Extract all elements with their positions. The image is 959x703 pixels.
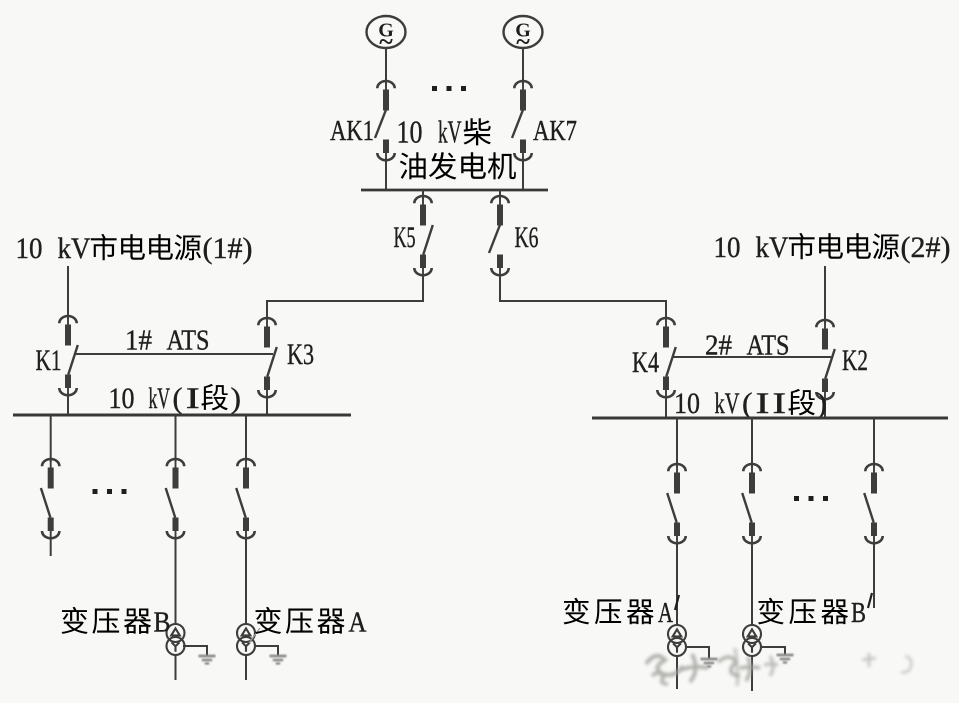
dots between right feeders: [794, 496, 828, 501]
svg-text:2#: 2#: [705, 330, 732, 362]
wire K6 down-right to K4: [499, 274, 501, 301]
wire bus II to transformer B' breaker: [751, 418, 753, 467]
svg-text:kV: kV: [58, 232, 91, 265]
svg-text:(: (: [742, 387, 753, 420]
wire breaker to transformer B': [751, 542, 753, 626]
dots between generators: [432, 86, 466, 91]
label 10 kV diesel generator line 2: [400, 152, 516, 179]
transformer B' secondary stub: [751, 656, 753, 691]
wire K5 down-left to K3: [422, 274, 424, 301]
svg-text:10: 10: [714, 231, 741, 264]
breaker K3: [258, 318, 277, 398]
dots between left feeders: [93, 489, 127, 494]
svg-text:1#: 1#: [125, 325, 152, 357]
wire AK1 to generator bus: [385, 158, 387, 190]
leader line to transformer A: [249, 628, 260, 643]
transformer A': [668, 625, 686, 656]
svg-text:AK1: AK1: [330, 115, 374, 147]
svg-text:K1: K1: [36, 344, 62, 377]
label transformer B': [758, 593, 872, 629]
svg-text:K4: K4: [632, 346, 659, 379]
svg-text:K3: K3: [287, 338, 314, 371]
breaker AK1: [375, 81, 395, 161]
stub feeder breaker (left): [41, 459, 60, 539]
earth at transformer B: [199, 656, 216, 664]
ATS1 tie line: [74, 353, 273, 355]
wire bus to K6: [499, 190, 501, 199]
transformer B neutral wire to earth: [183, 645, 207, 647]
svg-text:A: A: [658, 598, 674, 629]
transformer A secondary stub: [245, 655, 247, 680]
breaker AK7: [512, 81, 532, 161]
svg-text:kV: kV: [438, 114, 462, 150]
svg-text:10: 10: [16, 232, 43, 265]
svg-text:kV: kV: [756, 231, 789, 264]
wire breaker to transformer B: [175, 537, 177, 625]
wire bus I to stub feeder breaker: [50, 415, 52, 462]
label 1# ATS: [125, 325, 210, 357]
generator G1: [367, 16, 406, 56]
svg-text:): ): [231, 382, 242, 415]
wire bus II to stub feeder breaker (right): [873, 418, 875, 467]
svg-text:(1#): (1#): [203, 232, 253, 265]
svg-text:ATS: ATS: [167, 325, 210, 357]
transformer A feeder breaker: [236, 459, 255, 539]
wire bus I to transformer A breaker: [245, 415, 247, 462]
wire source1 to K1: [67, 266, 69, 319]
svg-text:): ): [817, 387, 828, 420]
transformer A' secondary stub: [676, 656, 678, 689]
ATS2 tie line: [672, 356, 831, 358]
svg-text:K6: K6: [515, 221, 539, 254]
transformer B: [167, 624, 185, 655]
label transformer B: [62, 607, 171, 639]
wire breaker to transformer A: [245, 537, 247, 625]
svg-text:K2: K2: [842, 344, 868, 377]
busbar 10kV segment I: [13, 414, 351, 417]
breaker K6: [489, 196, 509, 276]
earth at transformer B': [777, 655, 794, 663]
watermark smudge: [646, 648, 911, 686]
svg-text:(: (: [173, 382, 183, 415]
transformer A neutral wire to earth: [254, 645, 278, 647]
svg-text:AK7: AK7: [533, 115, 577, 147]
label 10 kV diesel generator line 1: [397, 114, 491, 150]
label transformer A: [255, 607, 367, 639]
svg-text:K5: K5: [394, 221, 416, 254]
stub feeder end (right): [873, 542, 875, 608]
label 10 kV utility source (2#): [714, 231, 951, 264]
svg-text:A: A: [349, 607, 367, 639]
svg-text:B: B: [851, 598, 866, 629]
wire AK7 to generator bus: [522, 158, 524, 190]
transformer A: [237, 624, 255, 655]
transformer B' feeder breaker: [742, 464, 761, 544]
wire K2 to bus II: [824, 398, 826, 419]
transformer B' neutral wire to earth: [760, 646, 785, 648]
generator busbar: [361, 189, 548, 192]
breaker K2: [816, 320, 835, 400]
label transformer A': [563, 595, 679, 629]
wire bus II to transformer A' breaker: [676, 418, 678, 467]
svg-text:I: I: [773, 387, 787, 420]
busbar 10kV segment II: [592, 417, 948, 420]
wire bus to K5: [422, 190, 424, 199]
transformer A' feeder breaker: [667, 464, 686, 544]
transformer B feeder breaker: [166, 459, 185, 539]
svg-text:10: 10: [397, 114, 423, 150]
wire K1 to bus I: [67, 393, 69, 416]
transformer A' neutral wire to earth: [685, 646, 709, 648]
stub feeder breaker (right): [864, 464, 883, 544]
transformer B': [743, 625, 761, 656]
label 10 kV utility source (1#): [16, 232, 253, 265]
breaker K4: [657, 318, 676, 398]
wire source2 to K2: [824, 266, 826, 323]
svg-text:I: I: [186, 382, 200, 415]
svg-text:10: 10: [674, 387, 700, 420]
svg-text:(2#): (2#): [901, 231, 951, 264]
transformer B secondary stub: [175, 655, 177, 680]
svg-text:kV: kV: [149, 382, 171, 415]
svg-text:10: 10: [109, 382, 135, 415]
svg-text:I: I: [756, 387, 770, 420]
breaker K1: [59, 316, 78, 396]
svg-text:kV: kV: [715, 387, 740, 420]
generator G2: [504, 16, 543, 56]
wire K3 to bus I: [266, 395, 268, 416]
wire G1 to AK1: [385, 48, 387, 84]
wire G2 to AK7: [522, 48, 524, 84]
wire breaker to transformer A': [676, 542, 678, 626]
svg-text:ATS: ATS: [747, 330, 790, 362]
label 2# ATS: [705, 330, 790, 362]
wire bus I to transformer B breaker: [175, 415, 177, 462]
earth at transformer A: [270, 656, 287, 664]
svg-text:B: B: [154, 607, 171, 639]
stub feeder end: [50, 537, 52, 556]
earth at transformer A': [701, 659, 718, 667]
breaker K5: [414, 196, 433, 276]
wire K4 to bus II: [665, 396, 667, 419]
label 10 kV segment II: [674, 387, 827, 420]
label 10 kV segment I: [109, 382, 242, 415]
